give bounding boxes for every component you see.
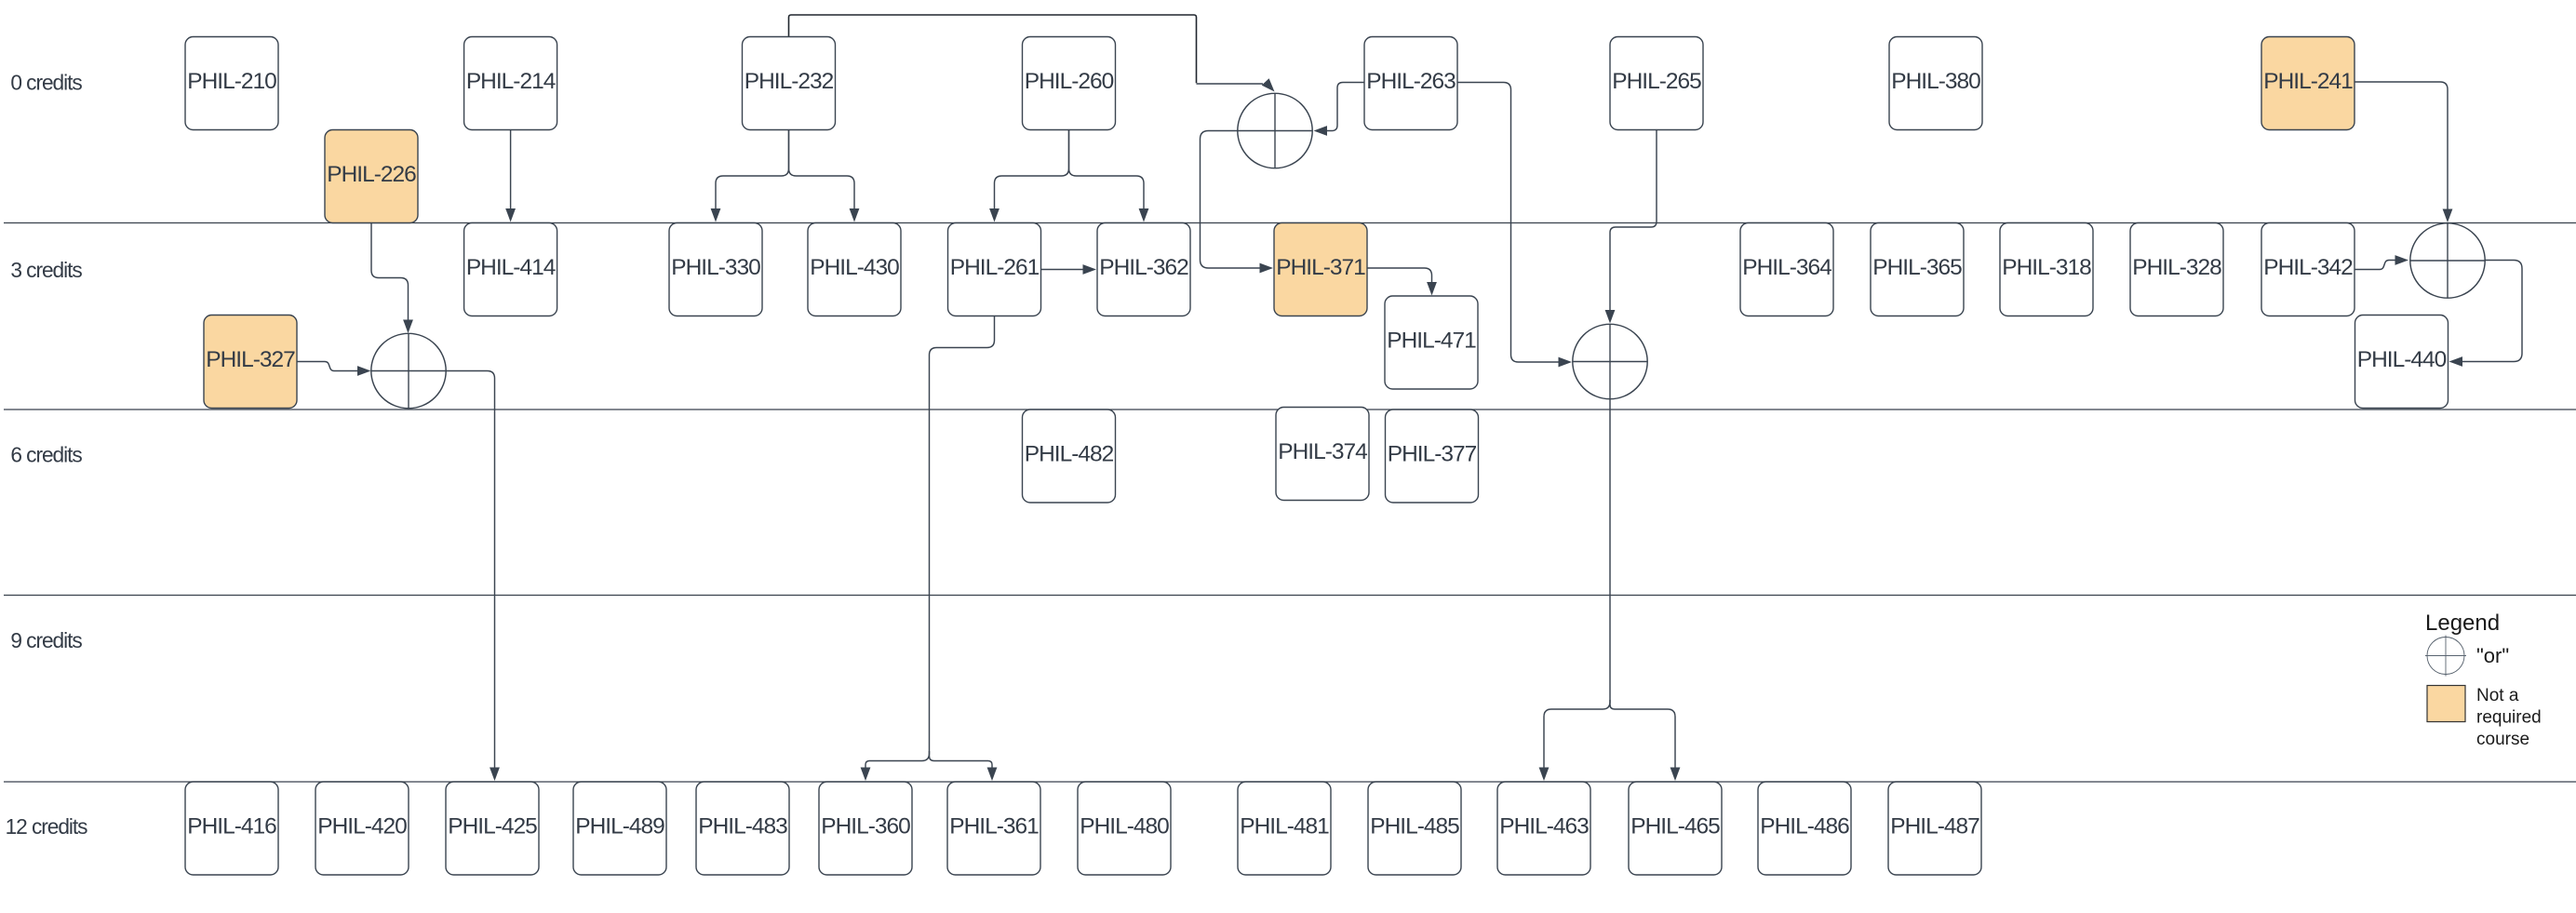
orange course box PHIL-327 [204,316,297,409]
wire PHIL-232 to or circle C1 arrow segment [1197,78,1275,91]
course box PHIL-362 [1097,223,1190,316]
svg-text:PHIL-485: PHIL-485 [1370,813,1459,839]
course box PHIL-263 [1364,37,1457,130]
course box PHIL-482 [1023,410,1116,503]
svg-text:PHIL-364: PHIL-364 [1742,255,1831,280]
legend title [2425,611,2500,636]
svg-text:PHIL-482: PHIL-482 [1025,441,1114,466]
lane line 2 [4,409,2576,410]
wire PHIL-263 to or circle C1 [1314,83,1365,136]
course box PHIL-420 [315,782,409,875]
svg-text:PHIL-486: PHIL-486 [1760,813,1849,839]
svg-text:Legend: Legend [2425,611,2500,636]
orange course box PHIL-371 [1274,223,1367,316]
svg-text:PHIL-440: PHIL-440 [2357,347,2447,372]
course box PHIL-328 [2130,223,2223,316]
wire or circle C3 to PHIL-465 [1610,700,1680,781]
course box PHIL-210 [185,37,278,130]
legend or text [2476,644,2509,667]
svg-text:PHIL-261: PHIL-261 [950,255,1040,280]
wire PHIL-260 to PHIL-362 [1069,130,1149,222]
course box PHIL-481 [1238,782,1331,875]
svg-text:PHIL-374: PHIL-374 [1278,439,1367,464]
wire or circle C2 to PHIL-425 [446,371,500,782]
course box PHIL-480 [1078,782,1171,875]
svg-text:PHIL-362: PHIL-362 [1099,255,1188,280]
course box PHIL-465 [1629,782,1722,875]
svg-text:PHIL-489: PHIL-489 [575,813,664,839]
wire PHIL-263 to or circle C3 [1457,83,1572,368]
svg-text:PHIL-318: PHIL-318 [2002,255,2091,280]
orange course box PHIL-226 [325,130,418,223]
svg-text:PHIL-465: PHIL-465 [1630,813,1720,839]
legend not-required text [2476,686,2542,749]
wire or circle C3 to PHIL-463 [1539,399,1610,782]
svg-text:PHIL-330: PHIL-330 [671,255,760,280]
or circle C3 [1573,324,1647,398]
course box PHIL-414 [464,223,557,316]
svg-text:PHIL-210: PHIL-210 [187,69,276,94]
course box PHIL-365 [1871,223,1964,316]
svg-text:PHIL-214: PHIL-214 [466,69,556,94]
svg-text:PHIL-260: PHIL-260 [1025,69,1114,94]
svg-text:PHIL-487: PHIL-487 [1890,813,1979,839]
wire PHIL-241 to or circle C4 [2355,82,2452,222]
wire or circle C4 to PHIL-440 [2449,261,2523,367]
lane line 3 [4,595,2576,597]
svg-text:required: required [2476,708,2542,728]
svg-text:PHIL-380: PHIL-380 [1891,69,1980,94]
course box PHIL-214 [464,37,557,130]
svg-text:PHIL-425: PHIL-425 [448,813,537,839]
wire PHIL-371 to PHIL-471 [1367,268,1437,296]
wire PHIL-232 to PHIL-330 [711,130,789,222]
svg-text:Not a: Not a [2476,686,2519,705]
wire or circle C1 to PHIL-371 [1201,131,1274,274]
wire PHIL-327 to or circle C2 [297,362,371,376]
wire PHIL-214 to PHIL-414 [505,130,516,222]
course box PHIL-487 [1888,782,1981,875]
wire PHIL-260 to PHIL-261 [989,130,1068,222]
course box PHIL-265 [1610,37,1703,130]
svg-text:PHIL-342: PHIL-342 [2263,255,2353,280]
svg-text:PHIL-226: PHIL-226 [327,162,416,187]
course box PHIL-374 [1276,408,1369,501]
wire PHIL-342 to or circle C4 [2355,255,2408,269]
course box PHIL-489 [573,782,666,875]
course box PHIL-430 [808,223,901,316]
wire PHIL-232 to or circle C1 [789,15,1197,83]
svg-text:3 credits: 3 credits [10,258,82,282]
svg-text:PHIL-420: PHIL-420 [317,813,407,839]
svg-text:PHIL-365: PHIL-365 [1872,255,1962,280]
svg-text:12 credits: 12 credits [6,814,88,839]
svg-text:9 credits: 9 credits [10,628,82,652]
svg-text:PHIL-360: PHIL-360 [821,813,910,839]
or circle C4 [2410,223,2485,298]
wire PHIL-261 to PHIL-360 [861,316,995,782]
svg-text:PHIL-416: PHIL-416 [187,813,276,839]
wire PHIL-232 to PHIL-430 [789,130,860,222]
course box PHIL-380 [1889,37,1982,130]
wire PHIL-261 to PHIL-361 [930,751,998,781]
or circle C2 [371,333,446,408]
course box PHIL-416 [185,782,278,875]
svg-text:PHIL-232: PHIL-232 [745,69,834,94]
course box PHIL-342 [2261,223,2355,316]
lane line 1 [4,222,2576,224]
orange course box PHIL-241 [2261,37,2355,130]
svg-text:PHIL-328: PHIL-328 [2132,255,2221,280]
svg-text:6 credits: 6 credits [10,443,82,467]
course box PHIL-483 [696,782,789,875]
course box PHIL-486 [1758,782,1851,875]
svg-text:PHIL-327: PHIL-327 [206,347,295,372]
svg-text:PHIL-463: PHIL-463 [1499,813,1589,839]
svg-text:PHIL-371: PHIL-371 [1276,255,1365,280]
legend or symbol [2425,636,2466,677]
wire PHIL-265 to or circle C3 [1605,130,1657,324]
svg-text:PHIL-241: PHIL-241 [2263,69,2353,94]
svg-text:course: course [2476,730,2529,749]
svg-text:PHIL-263: PHIL-263 [1366,69,1456,94]
course box PHIL-360 [819,782,912,875]
course box PHIL-318 [2000,223,2093,316]
svg-text:PHIL-481: PHIL-481 [1240,813,1329,839]
or circle C1 [1238,93,1312,168]
course box PHIL-425 [446,782,539,875]
svg-text:PHIL-265: PHIL-265 [1612,69,1701,94]
svg-text:0 credits: 0 credits [10,71,82,95]
course box PHIL-463 [1497,782,1590,875]
svg-text:PHIL-480: PHIL-480 [1080,813,1169,839]
svg-text:PHIL-430: PHIL-430 [810,255,899,280]
wire PHIL-226 to or circle C2 [371,223,413,334]
course box PHIL-261 [948,223,1041,316]
course box PHIL-440 [2355,316,2449,409]
svg-text:PHIL-377: PHIL-377 [1388,441,1477,466]
svg-text:PHIL-361: PHIL-361 [949,813,1039,839]
svg-text:PHIL-471: PHIL-471 [1387,328,1476,353]
course box PHIL-485 [1368,782,1461,875]
course box PHIL-361 [947,782,1040,875]
course box PHIL-377 [1386,410,1479,503]
course box PHIL-260 [1023,37,1116,130]
legend orange swatch [2427,686,2465,722]
lane line 4 [4,781,2576,783]
course box PHIL-330 [669,223,762,316]
course box PHIL-232 [743,37,836,130]
course box PHIL-471 [1385,296,1478,389]
svg-text:PHIL-414: PHIL-414 [466,255,556,280]
wire PHIL-261 to PHIL-362 [1041,264,1096,275]
svg-text:"or": "or" [2476,644,2509,667]
course box PHIL-364 [1740,223,1833,316]
svg-text:PHIL-483: PHIL-483 [698,813,787,839]
